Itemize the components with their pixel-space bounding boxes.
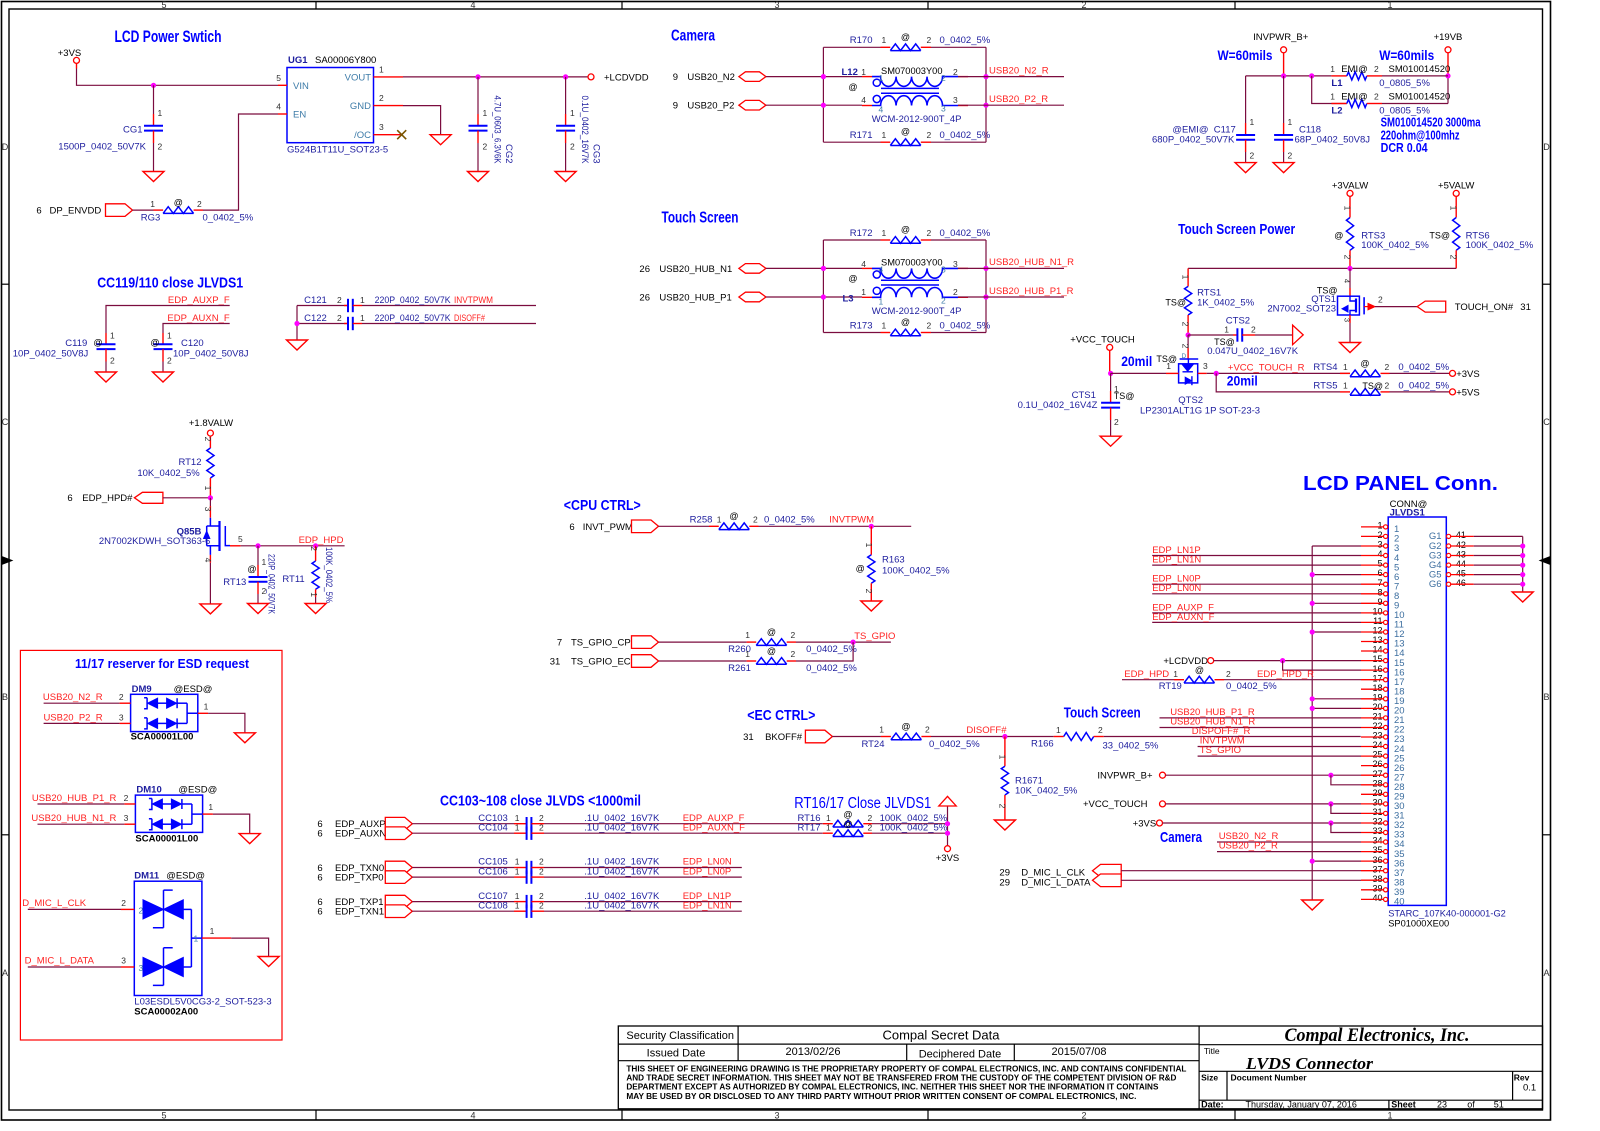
svg-text:EMI@: EMI@ <box>1341 92 1368 103</box>
svg-text:2: 2 <box>539 822 544 832</box>
svg-text:3: 3 <box>203 507 213 512</box>
svg-text:@: @ <box>901 225 910 235</box>
junction CG2 <box>475 74 480 79</box>
svg-text:@: @ <box>767 646 776 656</box>
svg-text:1: 1 <box>1377 521 1382 531</box>
svg-text:220P_0402_50V7K: 220P_0402_50V7K <box>375 295 452 306</box>
svg-text:14: 14 <box>1372 645 1382 655</box>
svg-text:18: 18 <box>1372 683 1382 693</box>
capacitor RT13 <box>257 546 259 565</box>
junction TS_GPIO <box>851 640 856 645</box>
svg-text:1: 1 <box>1166 361 1171 371</box>
transistor QTS2 LP2301 <box>1180 358 1199 360</box>
svg-text:33_0402_5%: 33_0402_5% <box>1103 741 1160 752</box>
wire USB20_P2 to transformer <box>766 104 862 106</box>
svg-text:EDP_TXP0: EDP_TXP0 <box>335 873 384 884</box>
svg-text:32: 32 <box>1372 817 1382 827</box>
connector left pins 1-40 <box>1384 525 1388 529</box>
svg-text:1: 1 <box>717 514 722 524</box>
wire EDP_HPD to RT19 <box>1122 679 1174 681</box>
svg-text:INVTPWM: INVTPWM <box>454 295 493 306</box>
svg-text:40: 40 <box>1372 893 1382 903</box>
svg-text:MAY BE USED BY OR DISCLOSED TO: MAY BE USED BY OR DISCLOSED TO ANY THIRD… <box>626 1092 1136 1101</box>
svg-text:INVPWR_B+: INVPWR_B+ <box>1097 771 1153 782</box>
svg-text:SA00006Y800: SA00006Y800 <box>315 55 376 66</box>
svg-text:12: 12 <box>1372 626 1382 636</box>
svg-text:EDP_TXN1: EDP_TXN1 <box>335 907 384 918</box>
svg-text:INVTPWM: INVTPWM <box>829 514 874 525</box>
svg-text:5: 5 <box>161 1111 166 1121</box>
connector JLVDS1 body <box>1388 517 1446 905</box>
svg-text:Issued Date: Issued Date <box>647 1048 706 1060</box>
wire pin19 to trunk <box>1312 698 1361 700</box>
svg-text:2015/07/08: 2015/07/08 <box>1051 1046 1106 1058</box>
junction R1671 <box>1002 734 1007 739</box>
ground Q85B <box>200 604 221 614</box>
svg-text:2: 2 <box>119 692 124 702</box>
svg-text:<EC CTRL>: <EC CTRL> <box>747 708 815 724</box>
wire UG1 GND to ground <box>403 106 441 135</box>
svg-text:31: 31 <box>550 657 561 668</box>
svg-text:1: 1 <box>360 313 365 323</box>
svg-text:31: 31 <box>743 732 754 743</box>
resistor RTS5 <box>1340 391 1350 393</box>
svg-text:26: 26 <box>639 264 650 275</box>
svg-text:1: 1 <box>515 866 520 876</box>
svg-text:Date:: Date: <box>1201 1100 1224 1110</box>
svg-text:8: 8 <box>1377 587 1382 597</box>
svg-text:Sheet: Sheet <box>1391 1100 1416 1110</box>
svg-text:VIN: VIN <box>293 81 309 92</box>
svg-text:37: 37 <box>1372 864 1382 874</box>
capacitor CG1 <box>153 85 155 114</box>
svg-text:10P_0402_50V8J: 10P_0402_50V8J <box>173 349 249 360</box>
svg-text:@: @ <box>93 338 102 348</box>
svg-text:Compal Electronics, Inc.: Compal Electronics, Inc. <box>1285 1025 1470 1046</box>
svg-text:C: C <box>1543 417 1550 427</box>
svg-text:SM010014520: SM010014520 <box>1389 92 1451 103</box>
wire +VCC_TOUCH down <box>1109 350 1111 373</box>
connector right pins 41-46 <box>1447 534 1451 538</box>
svg-text:42: 42 <box>1456 540 1466 550</box>
svg-text:EN: EN <box>293 110 306 121</box>
wire +1.8VALW to RT12 <box>209 436 211 448</box>
svg-text:CG3: CG3 <box>591 144 602 164</box>
transformer L3 SM070003Y00 <box>862 267 872 269</box>
wire pin36 to trunk <box>1312 860 1361 862</box>
wire VOUT rail to +LCDVDD <box>403 76 588 78</box>
svg-text:1: 1 <box>158 108 163 118</box>
svg-text:L12: L12 <box>842 67 858 78</box>
svg-text:USB20_N2_R: USB20_N2_R <box>43 692 103 703</box>
ground CTS1 <box>1100 436 1121 446</box>
svg-text:D: D <box>1543 142 1550 152</box>
svg-text:R170: R170 <box>850 35 873 46</box>
svg-text:Document Number: Document Number <box>1231 1073 1308 1083</box>
wire to QTS2 pin1 <box>1111 372 1166 374</box>
svg-text:Size: Size <box>1201 1073 1218 1083</box>
wire net EDP_LN0N to pin8 <box>1152 593 1361 595</box>
svg-text:40: 40 <box>1394 897 1405 908</box>
svg-text:D_MIC_L_DATA: D_MIC_L_DATA <box>25 956 95 967</box>
svg-text:2: 2 <box>941 295 946 305</box>
resistor RTS4 <box>1340 372 1350 374</box>
svg-text:TS_GPIO_CPU: TS_GPIO_CPU <box>571 638 638 649</box>
wire EDP_AUXP_F stub <box>106 306 230 334</box>
svg-text:2: 2 <box>539 813 544 823</box>
ground <box>234 733 255 743</box>
ground C120 <box>153 372 174 382</box>
svg-text:LCD Power Swtich: LCD Power Swtich <box>115 28 222 46</box>
wire to R260 <box>659 641 747 643</box>
svg-text:+VCC_TOUCH_R: +VCC_TOUCH_R <box>1228 363 1305 374</box>
svg-text:SM070003Y00: SM070003Y00 <box>881 258 943 268</box>
svg-text:R163: R163 <box>882 555 905 566</box>
capacitor C120 <box>162 333 164 344</box>
svg-text:EDP_AUXP_F: EDP_AUXP_F <box>168 295 230 306</box>
wire to CC107 <box>412 901 514 903</box>
svg-text:TS@: TS@ <box>1429 230 1450 240</box>
wire INVT_PWM to R258 <box>659 525 710 527</box>
wire EDP_AUXN_F stub <box>163 324 230 334</box>
wire RT12 to EDP_HPD# node <box>209 478 211 498</box>
svg-text:G524B1T11U_SOT23-5: G524B1T11U_SOT23-5 <box>287 145 388 156</box>
svg-text:+19VB: +19VB <box>1434 32 1463 43</box>
svg-text:6: 6 <box>36 205 41 216</box>
svg-text:20: 20 <box>1372 702 1382 712</box>
svg-text:220P_0402_50V7K: 220P_0402_50V7K <box>375 313 452 324</box>
svg-text:DM11: DM11 <box>134 871 160 882</box>
svg-text:2: 2 <box>1449 255 1459 260</box>
svg-text:D_MIC_L_DATA: D_MIC_L_DATA <box>1021 878 1091 889</box>
svg-text:68P_0402_50V8J: 68P_0402_50V8J <box>1295 135 1371 146</box>
capacitor CC107 <box>526 895 528 908</box>
wire Q85B source to ground <box>209 555 211 563</box>
svg-text:@ESD@: @ESD@ <box>178 785 217 796</box>
wire left loop vertical <box>822 240 824 333</box>
svg-text:EDP_LN1N: EDP_LN1N <box>1152 555 1201 566</box>
svg-text:EDP_AUXN_F: EDP_AUXN_F <box>167 313 229 324</box>
svg-text:2: 2 <box>570 142 575 152</box>
svg-text:3: 3 <box>379 122 384 132</box>
svg-text:100K_0402_5%: 100K_0402_5% <box>1466 240 1534 251</box>
svg-text:CG1: CG1 <box>123 125 143 136</box>
svg-text:5: 5 <box>238 534 243 544</box>
wire D_MIC_L_DATA to pin38 <box>1121 879 1361 881</box>
wire net USB20_N2_R <box>958 76 1064 78</box>
svg-text:1: 1 <box>882 320 887 330</box>
svg-text:2: 2 <box>1377 530 1382 540</box>
power +5VS right <box>1450 389 1456 395</box>
svg-text:L2: L2 <box>1331 105 1342 116</box>
svg-text:B: B <box>1543 692 1549 702</box>
svg-text:VOUT: VOUT <box>345 73 372 84</box>
svg-text:2: 2 <box>337 313 342 323</box>
svg-text:@: @ <box>247 564 256 574</box>
capacitor C122 <box>297 323 348 325</box>
svg-text:DISOFF#: DISOFF# <box>966 725 1007 736</box>
power +3VS pullup <box>945 846 951 852</box>
svg-text:1500P_0402_50V7K: 1500P_0402_50V7K <box>58 142 146 153</box>
svg-text:0_0402_5%: 0_0402_5% <box>1226 681 1277 692</box>
svg-text:10P_0402_50V8J: 10P_0402_50V8J <box>13 349 89 360</box>
svg-text:4: 4 <box>203 558 213 563</box>
svg-text:DM10: DM10 <box>136 785 161 796</box>
svg-text:1: 1 <box>483 108 488 118</box>
svg-text:1: 1 <box>515 822 520 832</box>
svg-text:@: @ <box>729 511 738 521</box>
svg-text:W=60mils: W=60mils <box>1379 47 1434 63</box>
svg-text:3: 3 <box>139 963 144 973</box>
svg-text:0_0402_5%: 0_0402_5% <box>806 663 857 674</box>
resistor R173 <box>823 332 880 334</box>
ground trunk <box>1302 900 1323 910</box>
svg-text:2: 2 <box>139 906 144 916</box>
svg-text:EDP_LN0N: EDP_LN0N <box>1152 583 1201 594</box>
ground <box>239 834 260 844</box>
power +3VS right <box>1450 370 1456 376</box>
svg-text:1: 1 <box>826 822 831 832</box>
svg-text:USB20_HUB_N1: USB20_HUB_N1 <box>659 264 732 275</box>
wire EDP_HPD# to junction <box>163 497 211 499</box>
svg-text:10: 10 <box>1372 607 1382 617</box>
svg-text:1: 1 <box>1387 1111 1392 1121</box>
resistor R166 <box>1054 736 1064 738</box>
wire to CC105 <box>412 867 514 869</box>
svg-text:+VCC_TOUCH: +VCC_TOUCH <box>1070 334 1135 345</box>
svg-text:C119: C119 <box>65 338 87 349</box>
svg-text:2: 2 <box>1181 344 1191 349</box>
wire left loop vertical <box>822 47 824 142</box>
wire INVTPWM net <box>749 525 758 527</box>
capacitor CG3 <box>565 77 567 114</box>
svg-text:3: 3 <box>119 712 124 722</box>
wire net USB20_P2_R <box>958 104 1064 106</box>
svg-text:STARC_107K40-000001-G2: STARC_107K40-000001-G2 <box>1388 909 1506 919</box>
svg-text:EDP_AUXN: EDP_AUXN <box>335 829 386 840</box>
wire C121/C122 left to ground <box>296 306 298 341</box>
svg-text:24: 24 <box>1372 740 1382 750</box>
svg-text:A: A <box>1543 968 1549 978</box>
svg-text:.1U_0402_16V7K: .1U_0402_16V7K <box>584 900 660 911</box>
capacitor C119 <box>105 333 107 344</box>
svg-text:43: 43 <box>1456 549 1466 559</box>
junction RTS1/CTS2 <box>1186 332 1191 337</box>
resistor RT16 <box>823 823 833 825</box>
wire right loop vertical <box>985 240 987 333</box>
svg-text:WCM-2012-900T_4P: WCM-2012-900T_4P <box>872 114 962 125</box>
svg-text:RTS4: RTS4 <box>1313 362 1337 373</box>
svg-text:SM070003Y00: SM070003Y00 <box>881 66 943 76</box>
svg-text:@: @ <box>901 317 910 327</box>
svg-text:2: 2 <box>753 514 758 524</box>
svg-text:1: 1 <box>1173 669 1178 679</box>
capacitor CC106 <box>526 870 528 883</box>
resistor R261 <box>756 658 787 665</box>
svg-text:1: 1 <box>1330 92 1335 102</box>
wire DM11 pin1 to ground <box>202 937 231 939</box>
svg-text:28: 28 <box>1372 778 1382 788</box>
svg-text:TS@: TS@ <box>1362 381 1383 391</box>
wire +19VB down <box>1447 53 1449 76</box>
svg-text:@: @ <box>843 810 852 820</box>
svg-text:1: 1 <box>1330 64 1335 74</box>
UG1 pin 5 VIN <box>278 84 287 86</box>
svg-text:7: 7 <box>1377 578 1382 588</box>
svg-text:6: 6 <box>317 829 322 840</box>
svg-text:19: 19 <box>1372 692 1382 702</box>
wire +VCC_TOUCH pins 30/31 <box>1166 803 1362 805</box>
wire net EDP_AUXN_F to pin11 <box>1152 621 1361 623</box>
svg-text:USB20_HUB_N1_R: USB20_HUB_N1_R <box>31 813 116 824</box>
svg-text:CG2: CG2 <box>503 144 514 164</box>
svg-text:@: @ <box>848 82 857 92</box>
svg-text:2: 2 <box>539 891 544 901</box>
svg-text:@: @ <box>767 627 776 637</box>
svg-text:TS_GPIO: TS_GPIO <box>1200 745 1241 756</box>
ground CG3 <box>555 172 576 182</box>
svg-text:1: 1 <box>379 65 384 75</box>
svg-text:1K_0402_5%: 1K_0402_5% <box>1197 298 1255 309</box>
svg-text:100K_0402_5%: 100K_0402_5% <box>882 566 950 577</box>
svg-text:2: 2 <box>379 93 384 103</box>
ground R163 <box>861 601 882 611</box>
svg-text:33: 33 <box>1372 826 1382 836</box>
svg-text:W=60mils: W=60mils <box>1218 47 1273 63</box>
wire USB20_N2 to transformer <box>766 76 862 78</box>
svg-text:2: 2 <box>791 630 796 640</box>
svg-text:0_0402_5%: 0_0402_5% <box>1398 362 1449 373</box>
svg-text:4: 4 <box>1377 549 1382 559</box>
capacitor CC108 <box>526 905 528 918</box>
svg-text:CC106: CC106 <box>478 866 508 877</box>
svg-text:2: 2 <box>791 649 796 659</box>
svg-text:39: 39 <box>1372 883 1382 893</box>
svg-text:9: 9 <box>673 101 678 112</box>
svg-text:SCA00002A00: SCA00002A00 <box>134 1007 198 1018</box>
svg-text:4.7U_0603_6.3V6K: 4.7U_0603_6.3V6K <box>492 96 503 165</box>
svg-text:3: 3 <box>121 956 126 966</box>
svg-text:DM9: DM9 <box>132 684 152 695</box>
capacitor C121 <box>297 305 348 307</box>
ground DM11 <box>258 957 279 967</box>
svg-text:DEPARTMENT EXCEPT AS AUTHORIZE: DEPARTMENT EXCEPT AS AUTHORIZED BY COMPA… <box>626 1083 1159 1092</box>
svg-text:17: 17 <box>1372 673 1382 683</box>
svg-text:0_0402_5%: 0_0402_5% <box>806 644 857 655</box>
svg-text:45: 45 <box>1456 568 1466 578</box>
resistor RT24 <box>891 733 922 740</box>
svg-text:20mil: 20mil <box>1121 354 1152 369</box>
svg-text:1: 1 <box>515 891 520 901</box>
svg-text:Rev: Rev <box>1514 1073 1530 1083</box>
ground RT11 <box>305 604 326 614</box>
svg-text:2: 2 <box>1114 417 1119 427</box>
svg-text:RT16/17 Close JLVDS1: RT16/17 Close JLVDS1 <box>794 795 931 812</box>
wire USB20_HUB_P1 to transformer <box>766 296 862 298</box>
wire net EDP_LN1N to pin5 <box>1152 564 1361 566</box>
svg-text:SP01000XE00: SP01000XE00 <box>1388 919 1449 929</box>
svg-text:2: 2 <box>539 900 544 910</box>
svg-text:2: 2 <box>1374 92 1379 102</box>
svg-text:0_0402_5%: 0_0402_5% <box>940 228 991 239</box>
svg-text:1: 1 <box>150 199 155 209</box>
svg-text:2: 2 <box>1343 255 1353 260</box>
svg-text:1: 1 <box>745 649 750 659</box>
svg-text:RT17: RT17 <box>797 822 820 833</box>
capacitor CC105 <box>526 861 528 874</box>
svg-text:TS_GPIO: TS_GPIO <box>854 631 895 642</box>
svg-text:5: 5 <box>161 0 166 10</box>
wire G bus to ground <box>1522 536 1524 592</box>
wire to RTS5 row <box>1216 373 1340 392</box>
wire net EDP_LN1P <box>544 901 742 903</box>
wire RT16/17 pullup rail <box>947 806 949 846</box>
wire to R261 <box>659 660 747 662</box>
svg-text:1: 1 <box>110 331 115 341</box>
title block frame <box>618 1026 1542 1109</box>
svg-text:51: 51 <box>1494 1100 1504 1110</box>
svg-text:QTS2: QTS2 <box>1178 395 1203 406</box>
svg-text:2: 2 <box>1081 0 1086 10</box>
svg-text:RT11: RT11 <box>282 574 304 585</box>
svg-text:3: 3 <box>953 95 958 105</box>
svg-text:2: 2 <box>927 228 932 238</box>
svg-text:13: 13 <box>1372 635 1382 645</box>
svg-text:1: 1 <box>1224 325 1229 335</box>
svg-text:2: 2 <box>927 35 932 45</box>
wire pin12 to trunk <box>1312 631 1361 633</box>
svg-text:0.1: 0.1 <box>1523 1083 1536 1094</box>
wire USB20_HUB_N1_R to pin22 <box>1160 727 1362 729</box>
svg-text:2: 2 <box>158 142 163 152</box>
wire +LCDVDD pins 15/16 <box>1214 660 1361 662</box>
resistor RTS1 <box>1187 268 1189 286</box>
IC UG1 SA00006Y800 power switch <box>287 68 374 143</box>
wire USB20_N2_R to pin34 <box>1217 841 1361 843</box>
svg-text:1: 1 <box>1343 206 1353 211</box>
svg-text:CC103~108 close JLVDS <1000mil: CC103~108 close JLVDS <1000mil <box>440 794 641 810</box>
ESD request box <box>20 650 282 1040</box>
ground CG2 <box>468 172 489 182</box>
svg-text:C121: C121 <box>304 295 327 306</box>
off-page arrow up (pullup) <box>939 796 956 806</box>
svg-text:11: 11 <box>1373 616 1382 626</box>
resistor R1671 <box>1004 737 1006 767</box>
svg-text:26: 26 <box>639 292 650 303</box>
svg-text:<CPU CTRL>: <CPU CTRL> <box>564 498 641 514</box>
svg-text:1: 1 <box>515 900 520 910</box>
svg-text:Compal Secret Data: Compal Secret Data <box>883 1029 1000 1043</box>
svg-text:1: 1 <box>745 630 750 640</box>
svg-text:1: 1 <box>309 592 319 597</box>
svg-text:23: 23 <box>1437 1100 1447 1110</box>
transformer L12 SM070003Y00 <box>862 76 872 78</box>
wire net EDP_LN1P to pin4 <box>1152 555 1361 557</box>
svg-text:C120: C120 <box>181 338 204 349</box>
svg-text:USB20_HUB_P1_R: USB20_HUB_P1_R <box>32 793 117 804</box>
svg-text:2N7002_SOT23: 2N7002_SOT23 <box>1267 304 1336 315</box>
wire RTS1 to QTS2 <box>1187 335 1189 348</box>
wire QTS2 pin3 +VCC_TOUCH_R <box>1198 372 1207 374</box>
svg-text:EDP_HPD: EDP_HPD <box>299 535 344 546</box>
wire QTS1 source to ground <box>1349 315 1351 323</box>
svg-text:100K_0402_5%: 100K_0402_5% <box>323 547 334 603</box>
junction CG3 <box>563 74 568 79</box>
zone ticks <box>315 2 317 10</box>
svg-text:2: 2 <box>927 130 932 140</box>
svg-text:.1U_0402_16V7K: .1U_0402_16V7K <box>584 822 660 833</box>
junction R163 <box>869 524 874 529</box>
